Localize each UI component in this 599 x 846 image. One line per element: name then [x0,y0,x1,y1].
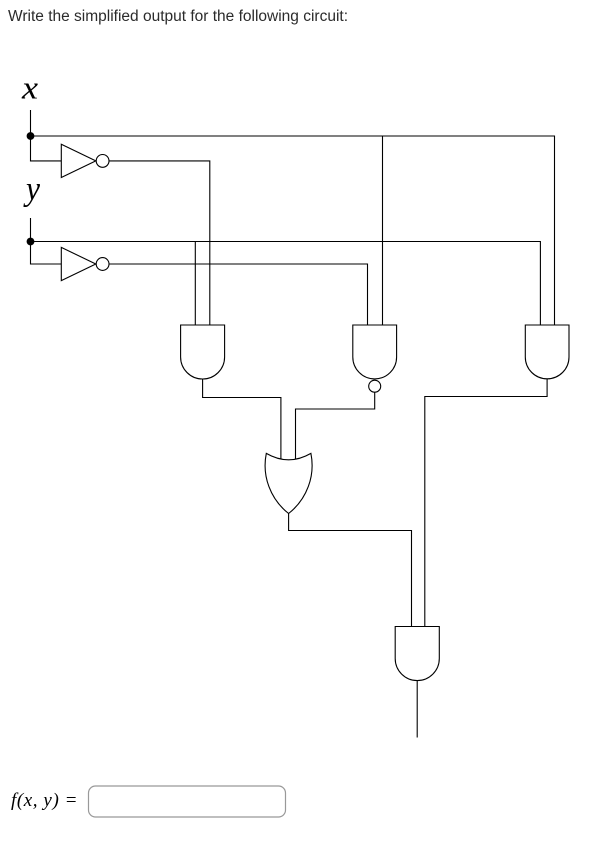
wire x branch to U4 right input [382,136,384,325]
wire U4 output to OR gate U6 right input [296,392,375,470]
NAND gate U4 bubble [369,380,381,392]
svg-text:f(x, y) =: f(x, y) = [11,790,78,811]
wire U3 output to OR gate U6 left input [203,379,281,470]
AND gate U5 [525,325,569,379]
NAND gate U4 body [353,325,397,379]
svg-text:x: x [21,71,38,107]
wire U7 output [416,681,418,738]
wire y main run to U5 left input [31,242,541,326]
AND gate U3 [181,325,225,379]
wire inverter U1 output to U3 right input [109,161,210,325]
svg-text:y: y [23,171,41,208]
inverter U2 (NOT y) [61,247,109,280]
wire y input stub [30,218,32,242]
inverter U1 (NOT x) [61,144,109,177]
wire x branch to inverter U1 input [31,136,62,161]
answer input box [89,786,286,817]
wire y branch to inverter U2 input [31,242,62,265]
wire x input stub [30,110,32,136]
node y junction dot [27,238,35,246]
wire inverter U2 output to U4 left input [109,264,368,325]
OR gate U6 [265,453,312,513]
wire y branch to U3 left input [194,242,196,326]
node x junction dot [27,132,35,140]
wire x main run to U5 right input [31,136,555,325]
AND gate U7 (output gate) [395,627,439,681]
svg-text:Write the simplified output fo: Write the simplified output for the foll… [8,8,348,25]
wire U5 output to U7 right input [425,379,547,627]
wire OR gate U6 output to U7 left input [289,514,412,627]
